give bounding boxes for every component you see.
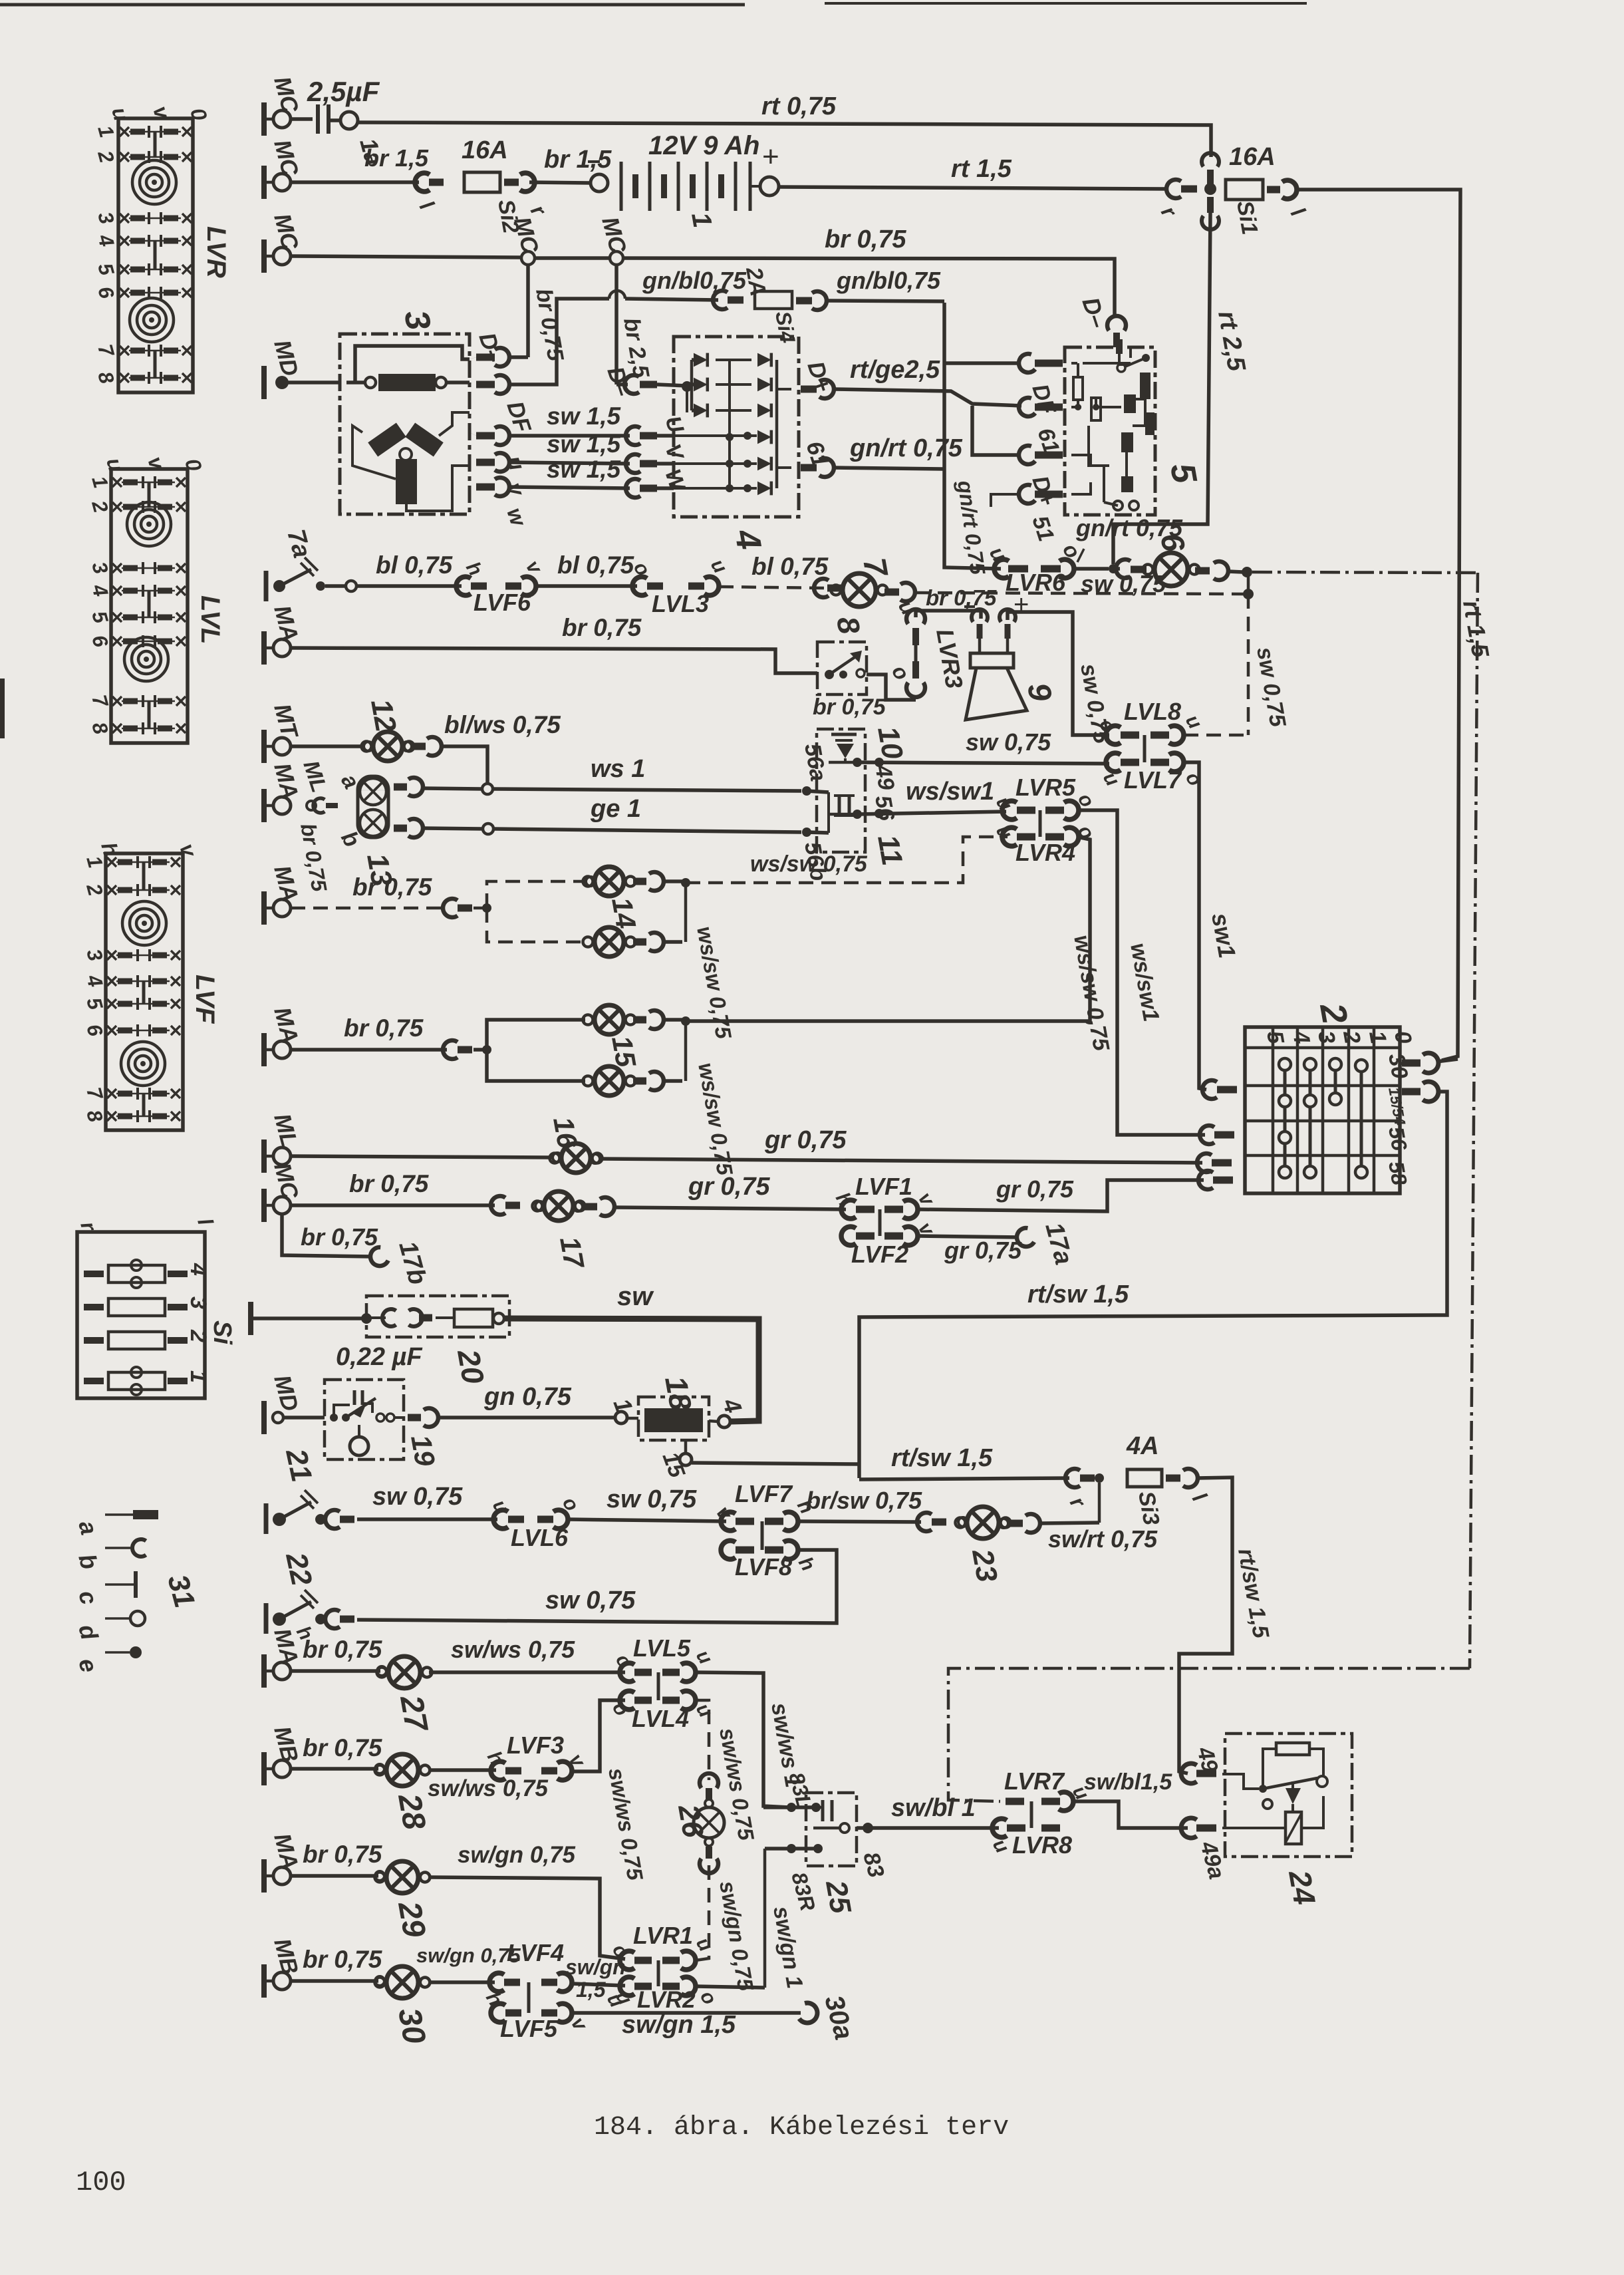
wire br 0,75 LVR3 to horn minus <box>916 611 981 619</box>
wire gn/bl to vertical <box>827 301 944 301</box>
wire to DF regulator <box>944 361 1020 365</box>
fuse Si2 in Si box <box>84 1337 104 1344</box>
connector pair LVF4 <box>489 1973 504 1992</box>
LVL headlight spiral upper <box>127 502 171 546</box>
LVF pin row 1 <box>107 857 116 867</box>
connector pair LVR8 <box>992 1819 1007 1837</box>
wire D+ feed regulator <box>972 406 1020 455</box>
interference suppressor box 20 <box>366 1296 509 1337</box>
wire LVL4 dashed to lamp 26 <box>696 1700 709 1780</box>
svg-text:rt/sw 1,5: rt/sw 1,5 <box>1027 1281 1129 1308</box>
svg-text:49: 49 <box>870 762 899 792</box>
svg-text:gn 0,75: gn 0,75 <box>483 1383 572 1411</box>
svg-text:10: 10 <box>871 724 909 762</box>
svg-text:LVR7: LVR7 <box>1004 1767 1065 1795</box>
horn 9 <box>972 609 988 622</box>
LVL pin row 4 <box>112 586 122 595</box>
wire lamp 29 to LVR1 <box>429 1877 625 1959</box>
connector 30 block 2 <box>1402 1060 1421 1067</box>
svg-text:br 0,75: br 0,75 <box>352 873 433 901</box>
svg-text:2,5µF: 2,5µF <box>307 76 380 107</box>
svg-text:+: + <box>762 140 779 173</box>
svg-text:LVL4: LVL4 <box>632 1705 689 1732</box>
wire dash-dot bottom to LVR7 <box>948 1668 1470 1801</box>
connector pair LVF7 <box>721 1512 736 1531</box>
svg-text:LVR4: LVR4 <box>1015 839 1075 866</box>
svg-text:LVR1: LVR1 <box>633 1922 693 1949</box>
node 1a <box>340 112 358 129</box>
lamp 14a branch <box>487 881 585 908</box>
svg-text:LVL5: LVL5 <box>633 1634 691 1662</box>
svg-text:56: 56 <box>870 794 899 824</box>
connector V rectifier <box>626 454 640 473</box>
terminal MC row 2 <box>261 166 267 199</box>
83 terminal wire sw/bl 1 <box>857 1826 999 1830</box>
battery 12V 9Ah <box>591 174 608 192</box>
connector 15/54 block 2 <box>1402 1088 1421 1096</box>
lamp 12 <box>291 744 363 748</box>
svg-text:16A: 16A <box>462 136 508 164</box>
83L terminal <box>787 1803 796 1812</box>
svg-text:LVF4: LVF4 <box>507 1939 564 1966</box>
svg-text:gr 0,75: gr 0,75 <box>944 1237 1022 1264</box>
wire gr 0,75 LVF1 up to block 2 <box>918 1180 1204 1211</box>
wire bl 0,75 3 <box>719 587 825 588</box>
svg-text:gr 0,75: gr 0,75 <box>688 1173 770 1201</box>
connector pair LVF8 <box>721 1541 736 1559</box>
wire ge 1 <box>423 828 483 829</box>
wire br 2,5 rectifier D- <box>614 265 618 384</box>
LVR pin row 7 <box>120 346 129 355</box>
wire gr 0,75 to LVF1 <box>614 1207 846 1209</box>
wire sw 0,75 21 <box>357 1517 497 1521</box>
connector pair LVR4 <box>1002 828 1017 846</box>
wire MC bus <box>291 256 523 257</box>
connector pair LVR6 <box>994 559 1009 578</box>
svg-text:gr 0,75: gr 0,75 <box>764 1126 847 1154</box>
svg-text:LVL7: LVL7 <box>1124 766 1182 794</box>
connector l after Si1 <box>1267 186 1280 194</box>
ws/sw1 entry block 2 <box>1200 1126 1214 1144</box>
connector block LVR <box>118 118 193 392</box>
LVF pin row 5 <box>107 999 116 1008</box>
terminal MA lamp 13 <box>261 789 267 822</box>
svg-text:bl/ws 0,75: bl/ws 0,75 <box>444 711 561 738</box>
svg-text:rt 1,5: rt 1,5 <box>951 155 1012 183</box>
connector r before Si3 <box>1065 1469 1080 1487</box>
regulator D- entry pin <box>1116 339 1123 354</box>
svg-text:sw 0,75: sw 0,75 <box>372 1483 463 1511</box>
svg-text:sw 1,5: sw 1,5 <box>547 430 621 458</box>
svg-text:sw/ws 0,75: sw/ws 0,75 <box>451 1636 575 1663</box>
wire sw vertical junction <box>1247 573 1250 594</box>
LVF headlight spiral lower <box>121 1042 165 1086</box>
generator armature wires <box>352 426 396 479</box>
svg-text:LVR2: LVR2 <box>637 1987 696 2013</box>
connector pair LVR5 <box>1002 801 1017 820</box>
svg-text:2A: 2A <box>741 265 771 298</box>
connector DF generator <box>495 375 509 394</box>
wire gn/rt label slash <box>1077 549 1084 562</box>
inner wires box 10 11 <box>827 792 830 833</box>
connector r after fuse Si2 <box>504 179 519 186</box>
terminal MC lamp 17 <box>261 1189 267 1222</box>
connector pair LVL4 <box>620 1691 634 1710</box>
connector pair LVL6 <box>493 1510 508 1529</box>
wire br 0,75 to regulator D- <box>623 258 1115 315</box>
svg-text:LVF6: LVF6 <box>474 589 531 616</box>
connector pair LVF5 <box>491 2004 505 2022</box>
83R terminal <box>787 1844 796 1853</box>
wire horn plus to sw vertical <box>1008 612 1109 735</box>
connector pair LVR2 <box>620 1977 634 1996</box>
generator field upper wire <box>355 346 470 382</box>
svg-text:LVF1: LVF1 <box>855 1173 912 1200</box>
svg-text:1: 1 <box>186 1370 211 1383</box>
terminal MD <box>261 366 267 399</box>
fuse Si4 2A gn/bl line <box>713 291 728 309</box>
svg-text:LVF: LVF <box>190 975 219 1024</box>
svg-text:LVF3: LVF3 <box>507 1732 564 1759</box>
svg-text:2: 2 <box>186 1329 211 1342</box>
lamp 6 pins <box>1195 567 1210 575</box>
rectifier diodes right column <box>757 353 771 367</box>
svg-text:LVR5: LVR5 <box>1015 774 1076 801</box>
connector 14 feed <box>443 899 458 917</box>
LVL pin row 3 <box>112 563 122 573</box>
wire dashed lamp 26 to LVR1 <box>696 1865 709 1960</box>
flasher box 8 <box>817 642 867 694</box>
svg-text:26: 26 <box>672 1801 710 1840</box>
terminal MA row lamp 8 <box>261 631 267 665</box>
svg-text:sw: sw <box>617 1282 654 1311</box>
wire gn/rt 0,75 from 61 <box>834 468 943 469</box>
svg-text:bl 0,75: bl 0,75 <box>751 553 829 580</box>
connector D- rectifier <box>624 375 639 394</box>
fuse Si1 in Si box <box>84 1378 104 1384</box>
connector ML <box>307 801 316 810</box>
svg-text:br 0,75: br 0,75 <box>303 1946 383 1973</box>
svg-text:ge 1: ge 1 <box>590 795 641 823</box>
connector D+ rectifier out <box>801 386 817 393</box>
wire br 1,5 right <box>529 182 590 183</box>
connector U rectifier <box>626 426 640 445</box>
connector pair LVL8 <box>1106 726 1121 744</box>
LVR headlight spiral upper <box>132 160 176 204</box>
capacitor 2,5uF <box>291 117 313 121</box>
wire gn 0,75 <box>438 1416 614 1420</box>
connector W rectifier <box>626 479 640 498</box>
wire sw/bl 1,5 <box>1073 1801 1188 1828</box>
svg-text:sw 1,5: sw 1,5 <box>547 456 621 483</box>
svg-text:br 0,75: br 0,75 <box>344 1014 424 1042</box>
fuse box Si <box>77 1232 205 1398</box>
svg-text:br 1,5: br 1,5 <box>364 144 429 172</box>
wire LVF3 to LVL4 <box>572 1700 625 1771</box>
svg-text:ws/sw1: ws/sw1 <box>906 778 994 806</box>
wire sw thick <box>504 1318 759 1422</box>
wire br 0,75 17b branch <box>282 1214 372 1257</box>
connector block LVL <box>111 469 188 743</box>
wire br 0,75 to flasher 8 <box>291 648 817 673</box>
svg-text:br 0,75: br 0,75 <box>303 1734 383 1761</box>
connector block LVF <box>106 853 183 1130</box>
connector U generator <box>495 426 509 445</box>
wire sw/gn 1 vertical <box>763 1849 767 1988</box>
svg-text:ws 1: ws 1 <box>591 755 645 783</box>
svg-text:rt/ge2,5: rt/ge2,5 <box>850 356 940 384</box>
wire sw/gn 1,5 LVF4 to LVR2 <box>572 1984 625 1986</box>
lamp 14a pins <box>633 878 646 885</box>
connector pair LVF2 <box>841 1227 856 1245</box>
LVR pin row 2 <box>120 152 129 162</box>
connector 15 feed <box>443 1040 458 1059</box>
svg-text:16A: 16A <box>1229 143 1276 171</box>
connector pair LVF1 <box>841 1200 856 1219</box>
symbol thermal flasher 10 <box>831 733 857 736</box>
wire 49 out <box>829 761 857 764</box>
scan artifact top edge line <box>0 3 745 7</box>
svg-text:LVR: LVR <box>202 226 231 278</box>
wire rt 1,5 <box>779 187 1168 189</box>
wire LVR2 to sw/gn1 vertical <box>696 1986 765 1988</box>
gr entry block 2 row 58b <box>1198 1171 1213 1189</box>
svg-text:4A: 4A <box>1126 1432 1159 1460</box>
node MC junction 1 <box>521 251 535 265</box>
wire br 0,75 dashed to sw vertical <box>915 593 1246 594</box>
connector 61 regulator <box>1019 398 1035 416</box>
svg-text:sw/gn: sw/gn <box>565 1955 626 1979</box>
connector 17b <box>370 1247 388 1266</box>
svg-text:58: 58 <box>1384 1159 1412 1187</box>
svg-text:bl 0,75: bl 0,75 <box>557 551 635 579</box>
wire gr 0,75 LVF2 to 17a <box>918 1236 1019 1237</box>
connector pair LVL5 <box>620 1663 634 1682</box>
svg-text:19: 19 <box>405 1432 442 1469</box>
LVL pin row 1 <box>112 478 122 487</box>
switch box 25 <box>806 1793 857 1866</box>
box 25 internals <box>821 1800 825 1821</box>
svg-text:LVL6: LVL6 <box>511 1524 569 1551</box>
connector after 19 <box>408 1414 421 1422</box>
connector D+ regulator <box>1019 446 1035 464</box>
relay 49a entry <box>1181 1818 1197 1838</box>
svg-text:12V 9 Ah: 12V 9 Ah <box>648 131 759 160</box>
lamp 14b branch <box>487 908 585 942</box>
connector pair LVR1 <box>620 1951 634 1970</box>
svg-text:LVF2: LVF2 <box>851 1241 908 1268</box>
switch 21 <box>264 1503 269 1534</box>
svg-text:30: 30 <box>391 2006 432 2047</box>
wire sw 0,75 22 to LVF8 <box>357 1550 837 1623</box>
wire rt 1,5 to right edge <box>1295 190 1460 1060</box>
connector 51 regulator <box>1019 485 1035 504</box>
wire sw/ws 1 <box>696 1672 789 1807</box>
wire br 0,75 <box>291 1203 495 1207</box>
wire ws/sw 0,75 dashed to LVR4 <box>686 837 1008 883</box>
svg-text:LVL: LVL <box>196 595 225 644</box>
svg-text:LVR8: LVR8 <box>1012 1831 1072 1859</box>
fuse Si4 in Si box <box>84 1271 104 1277</box>
wire ws 1 <box>423 788 482 789</box>
svg-text:gn/bl0,75: gn/bl0,75 <box>642 267 747 294</box>
svg-text:100: 100 <box>76 2167 126 2199</box>
relay 49 entry <box>1181 1763 1197 1783</box>
fuse Si1 16A <box>1226 180 1263 200</box>
sw1 entry block 2 <box>1202 1080 1217 1099</box>
svg-text:br 1,5: br 1,5 <box>544 146 612 174</box>
wire 15 to rt/sw <box>692 1463 859 1464</box>
connector pair LVF3 <box>491 1761 505 1780</box>
LVF pin row 6 <box>107 1026 116 1035</box>
terminal MA lamps 14 <box>261 891 267 925</box>
block 2 contacts col 1 <box>1360 1066 1363 1172</box>
cross junction at Si1 <box>1166 180 1181 198</box>
connector l after Si3 <box>1166 1475 1180 1482</box>
connector 61 rectifier out <box>801 464 817 472</box>
lamp 7 <box>827 585 842 592</box>
svg-text:LVF8: LVF8 <box>735 1553 792 1581</box>
fuse Si2 16A <box>464 172 500 192</box>
svg-text:sw/bl1,5: sw/bl1,5 <box>1084 1769 1172 1795</box>
coil 18 terminal 15 <box>680 1453 692 1465</box>
wire MD to generator <box>282 380 340 384</box>
terminal fuse line <box>248 1302 253 1335</box>
relay 24 internals <box>1276 1743 1309 1755</box>
LVF headlight spiral upper <box>122 901 166 945</box>
svg-text:11: 11 <box>871 832 908 868</box>
wire rt/sw 1,5 from 15/54 <box>859 1092 1447 1478</box>
wire ws/sw1 to block 2 <box>1079 810 1205 1135</box>
svg-text:sw/gn 0,75: sw/gn 0,75 <box>416 1944 521 1967</box>
LVL pin row 7 <box>112 696 122 706</box>
lamp 26 <box>700 1773 718 1788</box>
svg-text:rt 0,75: rt 0,75 <box>761 92 837 120</box>
terminal MB + lamp 30 <box>261 1964 267 1998</box>
wire br 0,75 <box>291 1048 447 1052</box>
wire 51 stub <box>991 494 1020 507</box>
terminal MC row 3 <box>261 239 267 273</box>
svg-text:bl 0,75: bl 0,75 <box>376 551 454 579</box>
scan artifact left edge <box>0 679 5 738</box>
wire ws/sw 0,75 to LVR4 right <box>686 837 1090 1021</box>
terminal MA + lamp 29 <box>261 1859 267 1893</box>
wire dash-dot to 30 circuit <box>1252 572 1478 573</box>
svg-text:0,22 µF: 0,22 µF <box>336 1343 423 1371</box>
LVF pin row 8 <box>107 1112 116 1121</box>
wire gr 0,75 long <box>600 1159 1202 1163</box>
connector D- regulator <box>1107 316 1126 331</box>
lamp 15b branch <box>487 1050 585 1081</box>
svg-text:br 0,75: br 0,75 <box>825 226 906 253</box>
LVL headlight spiral lower <box>124 637 168 681</box>
rectifier diodes left column <box>694 353 708 367</box>
svg-text:sw 0,75: sw 0,75 <box>966 728 1051 756</box>
wire br 1,5 left <box>291 180 419 184</box>
svg-text:29: 29 <box>391 1898 432 1940</box>
svg-text:sw/rt 0,75: sw/rt 0,75 <box>1048 1525 1158 1553</box>
node MC junction 2 <box>610 251 623 265</box>
LVF pin row 3 <box>107 951 116 960</box>
lamp 13 double <box>358 776 388 837</box>
svg-text:ws/sw 0,75: ws/sw 0,75 <box>750 851 868 877</box>
lamp 15a pins <box>633 1016 646 1024</box>
svg-text:br 0,75: br 0,75 <box>303 1636 383 1663</box>
lamp 15 right rail <box>684 1020 688 1081</box>
svg-text:br 0,75: br 0,75 <box>301 1223 378 1251</box>
wire br/sw 0,75 <box>798 1521 921 1522</box>
svg-text:gn/rt 0,75: gn/rt 0,75 <box>1075 514 1183 541</box>
capacitor box 19 <box>325 1380 404 1459</box>
block 2 contacts col 2 <box>1334 1064 1337 1099</box>
svg-text:sw/bl 1: sw/bl 1 <box>891 1794 976 1822</box>
wire sw/rt 0,75 <box>1040 1523 1099 1523</box>
wire sw/gn 1,5 LVF5 to 30a <box>572 2011 801 2015</box>
dashed sw 0,75 vertical <box>1247 594 1250 735</box>
svg-text:18: 18 <box>658 1374 698 1414</box>
svg-text:+: + <box>1014 590 1029 619</box>
gr entry block 2 row 58a <box>1197 1153 1212 1172</box>
wire rt/ge 2,5 <box>834 389 1021 406</box>
svg-text:21: 21 <box>279 1445 318 1485</box>
svg-text:16: 16 <box>547 1114 584 1151</box>
svg-text:sw 1,5: sw 1,5 <box>547 402 621 430</box>
connector W generator <box>495 478 509 496</box>
LVR pin row 1 <box>120 127 129 136</box>
switch 7a <box>264 571 269 601</box>
generator box 3 <box>340 334 470 514</box>
wire rt/sw 1,5 horizontal <box>859 1478 1069 1479</box>
svg-text:sw/gn 0,75: sw/gn 0,75 <box>458 1842 576 1868</box>
svg-text:28: 28 <box>391 1791 432 1833</box>
LVL pin row 6 <box>112 637 122 646</box>
terminal MC row 1 <box>261 102 267 136</box>
LVR pin row 4 <box>120 236 129 245</box>
wire flasher 8 to LVR3 <box>867 675 916 700</box>
wire rt 2,5 vertical <box>1113 213 1210 564</box>
svg-text:3: 3 <box>186 1296 211 1309</box>
svg-text:br 0,75: br 0,75 <box>926 585 997 610</box>
LVR pin row 6 <box>120 288 129 297</box>
lamp 15a branch <box>487 1020 585 1050</box>
svg-text:br 0,75: br 0,75 <box>303 1841 383 1868</box>
LVR pin row 8 <box>120 373 129 382</box>
svg-text:22: 22 <box>279 1549 318 1589</box>
lamp 17 <box>491 1196 505 1215</box>
wire sw1 LVL7 to block 2 <box>1184 762 1206 1090</box>
svg-text:sw 0,75: sw 0,75 <box>607 1485 697 1513</box>
LVL pin row 8 <box>112 724 122 733</box>
connector l before fuse Si2 <box>415 173 430 192</box>
block 2 contacts col 3 <box>1309 1064 1312 1172</box>
svg-text:gr 0,75: gr 0,75 <box>996 1175 1074 1203</box>
lamp 16 <box>291 1156 552 1157</box>
wire LVR6 to lamp 6 <box>1074 567 1109 571</box>
LVF pin row 7 <box>107 1089 116 1098</box>
wire gn/rt 0,75 vertical <box>944 303 1001 569</box>
terminal MB + lamp 28 <box>261 1752 267 1785</box>
LVR pin row 5 <box>120 265 129 274</box>
terminal MA + lamp 27 <box>261 1654 267 1688</box>
svg-text:12: 12 <box>364 696 402 734</box>
svg-text:184. ábra. Kábelezési terv: 184. ábra. Kábelezési terv <box>594 2113 1009 2143</box>
wire bl 0,75 2 <box>536 584 637 588</box>
wire to box 20 <box>251 1316 362 1320</box>
svg-text:br/sw 0,75: br/sw 0,75 <box>806 1487 922 1514</box>
wire dashed LVL8 to sw vertical <box>1184 734 1246 737</box>
connector pair LVL7 <box>1106 753 1121 772</box>
LVL pin row 5 <box>112 613 122 622</box>
